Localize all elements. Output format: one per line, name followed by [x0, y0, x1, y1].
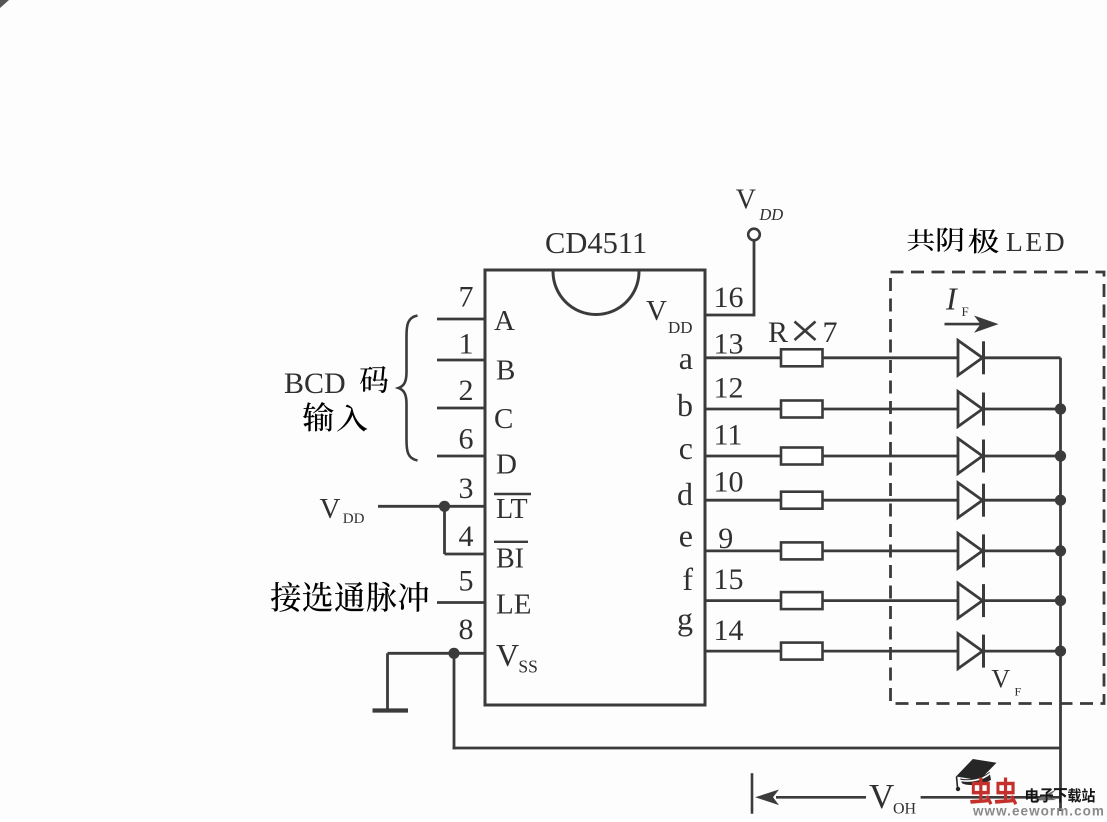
svg-text:V: V — [646, 295, 667, 327]
svg-text:F: F — [962, 304, 969, 319]
LED diode Df — [958, 583, 983, 618]
pin 4 stub and number — [443, 506, 446, 554]
label 共阴极 LED — [908, 229, 935, 251]
resistor Rc (R×7) — [781, 448, 823, 465]
wire LED f cathode to common — [984, 599, 1061, 602]
LED diode Dd — [958, 483, 983, 518]
wire resistor to LED g — [823, 650, 959, 653]
svg-text:V: V — [869, 777, 894, 816]
wire pin16 riser to VDD terminal — [753, 240, 756, 316]
svg-text:C: C — [494, 403, 513, 435]
svg-text:OH: OH — [893, 801, 917, 817]
wire LED c cathode to common — [984, 455, 1061, 458]
pin 2 stub and number — [437, 407, 485, 410]
pin 6 stub and number — [437, 455, 485, 458]
svg-text:BCD: BCD — [284, 367, 346, 400]
svg-text:F: F — [1015, 684, 1022, 698]
ground symbol — [373, 708, 409, 712]
svg-text:6: 6 — [459, 423, 474, 456]
wire resistor to LED d — [823, 499, 959, 502]
LED diode Dg — [958, 634, 983, 669]
LED diode Db — [958, 392, 983, 427]
svg-text:5: 5 — [459, 564, 474, 597]
svg-text:V: V — [736, 184, 756, 215]
svg-text:c: c — [679, 430, 693, 466]
wire resistor to LED a — [823, 356, 959, 359]
VDD terminal circle — [748, 229, 760, 241]
wire pin 9 to resistor — [705, 550, 781, 553]
pin 3 stub and number — [378, 505, 485, 508]
svg-text:8: 8 — [459, 613, 474, 646]
svg-text:15: 15 — [714, 563, 744, 596]
junction dot common-d — [1055, 495, 1066, 506]
svg-text:V: V — [991, 665, 1010, 694]
bottom rail wire — [453, 747, 1061, 750]
dashed box: common-cathode LED display — [891, 272, 1105, 704]
common cathode line — [1059, 358, 1062, 811]
label 输入 (line 2) — [303, 402, 334, 431]
svg-text:14: 14 — [714, 614, 744, 647]
svg-text:d: d — [677, 476, 693, 512]
svg-text:www.eeworm.com: www.eeworm.com — [972, 804, 1105, 818]
wire pin 12 to resistor — [705, 408, 781, 411]
svg-text:DD: DD — [668, 318, 693, 337]
junction dot VSS — [448, 648, 459, 659]
svg-text:4: 4 — [459, 520, 474, 553]
LED diode Dc — [958, 439, 983, 474]
resistor Rd (R×7) — [781, 492, 823, 509]
svg-text:I: I — [945, 280, 958, 316]
svg-text:BI: BI — [496, 543, 524, 574]
resistor Rg (R×7) — [781, 643, 823, 660]
wire LED a cathode to common — [984, 356, 1061, 359]
svg-text:e: e — [679, 517, 693, 553]
pin 1 stub and number — [437, 359, 485, 362]
junction dot common-f — [1055, 595, 1066, 606]
svg-text:7: 7 — [823, 316, 838, 349]
svg-text:R: R — [768, 316, 788, 349]
svg-text:f: f — [682, 561, 693, 597]
svg-text:LED: LED — [1006, 226, 1067, 257]
junction dot common-c — [1055, 450, 1066, 461]
watermark swoosh — [1034, 789, 1057, 801]
svg-text:3: 3 — [459, 472, 474, 505]
wire resistor to LED f — [823, 599, 959, 602]
resistor Ra (R×7) — [781, 349, 823, 366]
scan speck top-left corner — [0, 0, 9, 8]
LED diode De — [958, 533, 983, 568]
svg-text:13: 13 — [714, 327, 744, 360]
svg-text:a: a — [679, 340, 693, 376]
svg-text:16: 16 — [714, 281, 744, 314]
svg-text:b: b — [677, 387, 693, 423]
svg-text:A: A — [494, 305, 515, 337]
pin 5 stub and number — [437, 601, 485, 604]
wire pin 13 to resistor — [705, 356, 781, 359]
pin 8 stub and number — [388, 652, 486, 655]
VOH line right segment — [921, 796, 1059, 799]
wire VSS to ground — [386, 653, 389, 709]
svg-text:DD: DD — [758, 205, 783, 224]
svg-text:CD4511: CD4511 — [545, 226, 647, 260]
wire LED g cathode to common — [984, 650, 1061, 653]
svg-text:10: 10 — [714, 466, 744, 499]
wire resistor to LED e — [823, 550, 959, 553]
wire pin 11 to resistor — [705, 455, 781, 458]
svg-text:B: B — [496, 355, 515, 387]
resistor Re (R×7) — [781, 542, 823, 559]
junction dot LT/BI — [439, 501, 450, 512]
junction dot common-e — [1055, 545, 1066, 556]
watermark graduation cap icon — [956, 759, 997, 780]
svg-text:11: 11 — [714, 419, 743, 452]
wire LED b cathode to common — [984, 408, 1061, 411]
svg-text:DD: DD — [343, 511, 365, 527]
brace BCD input group — [399, 316, 418, 461]
wire resistor to LED b — [823, 408, 959, 411]
svg-text:12: 12 — [714, 372, 744, 405]
wire LED e cathode to common — [984, 550, 1061, 553]
svg-text:LE: LE — [496, 588, 531, 620]
IC U1 CD4511 body — [485, 270, 705, 705]
IC U1 orientation notch — [553, 272, 639, 315]
svg-text:2: 2 — [459, 374, 474, 407]
svg-text:1: 1 — [459, 328, 474, 361]
resistor Rf (R×7) — [781, 592, 823, 609]
IF current arrow — [945, 323, 985, 326]
wire LED d cathode to common — [984, 499, 1061, 502]
svg-text:V: V — [320, 493, 341, 525]
svg-text:V: V — [496, 637, 519, 673]
LED diode Da — [958, 340, 983, 375]
watermark 电子下载站 — [1026, 788, 1095, 802]
svg-text:7: 7 — [459, 281, 474, 314]
pin 16 stub — [705, 314, 754, 317]
wire VSS down to bottom rail — [453, 653, 456, 749]
svg-text:LT: LT — [496, 494, 528, 525]
label 接选通脉冲 — [271, 582, 301, 612]
svg-text:g: g — [677, 601, 693, 637]
VOH arrow — [755, 790, 779, 806]
wire pin 10 to resistor — [705, 499, 781, 502]
wire resistor to LED c — [823, 455, 959, 458]
svg-text:D: D — [496, 449, 517, 481]
wire pin 15 to resistor — [705, 599, 781, 602]
watermark 虫虫 (red) — [970, 777, 1017, 804]
resistor Rb (R×7) — [781, 401, 823, 418]
junction dot common-g — [1055, 646, 1066, 657]
svg-text:SS: SS — [518, 656, 537, 676]
junction dot common-b — [1055, 403, 1066, 414]
VOH dimension tick — [751, 773, 754, 814]
pin 7 stub and number — [437, 318, 485, 321]
wire pin 14 to resistor — [705, 650, 781, 653]
